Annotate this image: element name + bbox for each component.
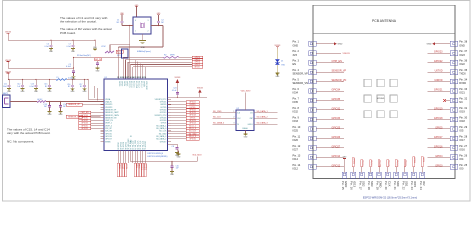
svg-text:Pin. 14: Pin. 14 [293, 164, 301, 167]
wire Pin. 20 [387, 167, 389, 173]
wire bottom pin [117, 151, 119, 164]
svg-text:IO19: IO19 [459, 111, 465, 114]
svg-text:SD_CLK: SD_CLK [159, 131, 167, 133]
capacitor C5 EN cluster [73, 58, 75, 72]
svg-text:GPIO4: GPIO4 [125, 142, 127, 147]
wire bottom pin [122, 151, 124, 164]
port GPIO22 [186, 109, 199, 112]
pin left VDDA [101, 98, 105, 100]
port SD_D_1 [186, 124, 199, 127]
pin left LNA_IN [101, 101, 105, 103]
port GPIO5 [192, 63, 203, 66]
pin right GPIO17 [168, 141, 172, 143]
svg-text:Pin. 25: Pin. 25 [459, 164, 467, 167]
svg-text:CHIP_PU: CHIP_PU [105, 120, 113, 122]
net label SD_D_2 rotated [361, 160, 363, 167]
svg-text:IO25: IO25 [293, 130, 299, 133]
svg-text:MTDO: MTDO [118, 142, 120, 148]
wire XIN [122, 25, 133, 27]
svg-text:Pin. 10: Pin. 10 [293, 126, 301, 129]
svg-text:SENSOR_VP: SENSOR_VP [105, 109, 117, 111]
wire rail3 [8, 79, 56, 81]
wire Pin. 5 [316, 81, 344, 83]
svg-text:ESP32-D0WD(NRND): ESP32-D0WD(NRND) [148, 156, 168, 158]
svg-text:SD1: SD1 [405, 181, 409, 187]
svg-text:22: 22 [137, 77, 139, 79]
wire to port U0TXD [168, 106, 187, 108]
wire Pin. 9 [316, 118, 344, 120]
svg-text:GPIO17: GPIO17 [160, 141, 167, 143]
svg-text:IO35: IO35 [293, 101, 299, 104]
svg-text:NC: No component.: NC: No component. [7, 140, 34, 144]
svg-text:GPIO0: GPIO0 [118, 81, 120, 86]
wire EN to chip b [96, 88, 98, 101]
svg-text:3: 3 [148, 20, 149, 22]
wire Pin. 4 [316, 71, 344, 73]
pin left VDD3P3 [101, 104, 105, 106]
svg-text:U0TXD: U0TXD [160, 107, 167, 109]
port SENSOR_VP [66, 103, 82, 106]
port GPIO25 [79, 124, 91, 127]
gnd flag symbol [343, 158, 346, 160]
port SD_CMD flash left [213, 112, 237, 114]
svg-text:SD_CMD: SD_CMD [159, 133, 167, 135]
wire EN to chip a [94, 86, 96, 98]
svg-text:RXD0: RXD0 [459, 82, 466, 85]
pin right VDD3P3_CPU [168, 114, 172, 116]
svg-text:VDD_SDIO: VDD_SDIO [128, 138, 130, 147]
svg-text:GPIO18: GPIO18 [160, 120, 167, 122]
svg-text:GPIO17: GPIO17 [142, 81, 144, 87]
pin right VDD3P3_RTC [168, 98, 172, 100]
port GPIO34 [79, 114, 91, 117]
svg-text:GND: GND [141, 47, 146, 49]
svg-text:SD_D_1: SD_D_1 [128, 81, 130, 87]
capacitor C8 right mid [168, 143, 178, 145]
wire top pin stub [134, 60, 136, 79]
module pin box right Pin. 27 IO16 [450, 145, 458, 150]
svg-text:Pin. 31: Pin. 31 [459, 107, 467, 110]
net label GPIO13 rotated [352, 158, 354, 167]
module pin box bottom Pin. 18 SD3 [368, 172, 373, 178]
svg-text:Pin. 34: Pin. 34 [459, 79, 467, 82]
svg-text:GND: GND [293, 44, 299, 47]
wire bottom pin [127, 151, 129, 164]
svg-text:GPIO0: GPIO0 [435, 164, 443, 167]
module pin box right Pin. 29 IO5 [450, 127, 458, 132]
module pin box right Pin. 33 IO21 [450, 89, 458, 94]
port U0TXD [186, 106, 199, 109]
svg-text:GPIO14: GPIO14 [332, 155, 341, 158]
svg-text:30: 30 [120, 77, 122, 79]
svg-text:U0TXD: U0TXD [435, 70, 443, 73]
wire bottom pin [130, 151, 132, 162]
net label SD_D_0 rotated [395, 160, 397, 167]
port GPIO16 rotated [139, 163, 141, 177]
svg-text:D1: D1 [281, 61, 283, 63]
module pin box right Pin. 36 IO22 [450, 60, 458, 65]
pin left VDD3P3 [101, 106, 105, 108]
svg-text:Pin. 11: Pin. 11 [293, 135, 301, 138]
wire Pin. 7 [316, 100, 344, 102]
module pin box left Pin. 10 IO25 [309, 127, 317, 132]
wire Pin. 30 [428, 118, 451, 120]
pin right GPIO21 [168, 101, 172, 103]
pin left SENSOR_CAPN [101, 114, 105, 116]
svg-text:vary with the actual PCB board: vary with the actual PCB board. [7, 131, 50, 135]
wire to port GPIO23 [168, 119, 187, 121]
svg-text:VDD_SDIO: VDD_SDIO [192, 155, 202, 157]
svg-text:CMD: CMD [379, 181, 383, 187]
svg-text:(NC): (NC) [117, 55, 121, 57]
svg-text:Pin. 3: Pin. 3 [293, 60, 300, 63]
IC U2 flash body [236, 110, 254, 131]
svg-text:SENSOR_VP: SENSOR_VP [332, 70, 347, 73]
svg-text:IO17: IO17 [459, 139, 465, 142]
wire Pin. 18 [369, 167, 371, 173]
svg-text:GPIO2: GPIO2 [120, 81, 122, 86]
svg-text:MTMS: MTMS [105, 141, 111, 143]
svg-text:CLK: CLK [387, 181, 391, 187]
wire bus GPIO0 [122, 57, 124, 79]
port SD_D3 flash right [254, 123, 278, 125]
resistor R2 [163, 56, 179, 58]
svg-text:GPIO35: GPIO35 [332, 98, 341, 101]
svg-text:1uF: 1uF [17, 86, 20, 88]
antenna stub ANT1 [3, 95, 11, 108]
capacitor C2 [157, 20, 160, 22]
svg-text:IO13: IO13 [353, 181, 357, 188]
gnd arrow symbol [334, 42, 337, 45]
svg-text:Pin. 6: Pin. 6 [293, 88, 300, 91]
wire bottom pin [139, 151, 141, 164]
svg-text:IO22: IO22 [459, 63, 465, 66]
svg-text:the selection of the crystal.: the selection of the crystal. [60, 20, 97, 24]
svg-text:C12: C12 [17, 84, 20, 86]
capacitor C14 shunt [60, 101, 61, 102]
pin right GPIO18 [168, 119, 172, 121]
wire to port SD_CMD [168, 133, 187, 135]
wire Pin. 14 [316, 166, 344, 168]
wire Pin. 23 [413, 167, 415, 173]
pin left SENSOR_VP [101, 109, 105, 111]
module pin box left Pin. 3 EN [309, 60, 317, 65]
svg-text:VDET_1: VDET_1 [105, 123, 112, 125]
wire to port SD_D_3 [168, 135, 187, 137]
svg-text:SENSOR_VP: SENSOR_VP [68, 104, 80, 106]
svg-text:Pin. 9: Pin. 9 [293, 116, 300, 119]
module pin box bottom Pin. 20 CLK [385, 172, 390, 178]
svg-text:C10: C10 [176, 165, 179, 167]
svg-text:C7: C7 [69, 44, 71, 46]
svg-text:SENSOR_VN: SENSOR_VN [332, 79, 347, 82]
svg-text:GPIO16: GPIO16 [434, 145, 443, 148]
svg-text:C14: C14 [63, 104, 66, 106]
module pin box left Pin. 11 IO26 [309, 136, 317, 141]
wire after L5 [67, 79, 88, 81]
module pin box left Pin. 14 IO12 [309, 164, 317, 169]
wire XOUT [151, 25, 163, 27]
svg-text:GPIO26: GPIO26 [332, 136, 341, 139]
antenna zone divider [313, 33, 455, 35]
module pin box right Pin. 26 IO4 [450, 155, 458, 160]
pin right GPIO22 [168, 109, 172, 111]
pin right SD_DATA_0 [168, 127, 172, 129]
svg-text:GPIO21: GPIO21 [160, 102, 167, 104]
port SD_D_3 [186, 135, 199, 138]
svg-text:U0RXD: U0RXD [434, 79, 442, 82]
svg-text:C11: C11 [4, 84, 7, 86]
module pin box right Pin. 30 IO18 [450, 117, 458, 122]
svg-text:GPIO22: GPIO22 [160, 109, 167, 111]
wire Pin. 2 [316, 52, 341, 54]
module pin box bottom Pin. 15 GND [342, 172, 347, 178]
wire Pin. 29 [428, 128, 451, 130]
svg-text:L4 NC: L4 NC [37, 99, 43, 101]
svg-text:C17: C17 [79, 84, 82, 86]
port GPIO2 rotated [120, 163, 122, 177]
pin right SD_DATA_1 [168, 125, 172, 127]
svg-text:GPIO12: GPIO12 [332, 164, 341, 167]
svg-text:IO32: IO32 [293, 111, 299, 114]
wire to port GPIO5 [168, 117, 187, 119]
pin right SD_DATA_2 [168, 138, 172, 140]
svg-text:GND: GND [338, 44, 343, 46]
port SD_CLK [186, 130, 199, 133]
svg-text:VDD3P3: VDD3P3 [105, 107, 112, 109]
capacitor C4 [96, 62, 99, 64]
svg-text:Pin. 7: Pin. 7 [293, 98, 300, 101]
svg-text:0.1uF: 0.1uF [44, 46, 48, 48]
pin right GPIO5 [168, 122, 172, 124]
svg-text:VDD_SDIO: VDD_SDIO [241, 91, 251, 93]
svg-text:IO16: IO16 [459, 148, 465, 151]
wire top pin stub [144, 67, 146, 79]
svg-text:GPIO4: GPIO4 [435, 155, 443, 158]
svg-text:IO34: IO34 [293, 92, 299, 95]
crystal X1 body [133, 17, 151, 34]
svg-text:L2 NC: L2 NC [101, 46, 107, 48]
svg-text:MTDO: MTDO [195, 67, 201, 69]
svg-text:GPIO17: GPIO17 [145, 141, 147, 147]
svg-text:GPIO32: GPIO32 [332, 107, 341, 110]
capacitor C7 cluster [72, 40, 73, 41]
svg-text:Pin. 35: Pin. 35 [459, 69, 467, 72]
port SD_D1 flash right [254, 112, 278, 114]
wire Pin. 24 [421, 167, 423, 173]
svg-text:C8: C8 [171, 146, 173, 148]
wire Pin. 3 [316, 62, 344, 64]
wire filtered vdd into chip [87, 80, 89, 100]
wire bus GPIO5 [129, 65, 131, 80]
wire top pin stub [139, 63, 141, 79]
pin left 32K_XP [101, 127, 105, 129]
module pin box left Pin. 4 SENSOR_VP [309, 70, 317, 75]
port GPIO26 [79, 127, 91, 130]
module pin box right Pin. 28 IO17 [450, 136, 458, 141]
wire Pin. 33 [428, 90, 451, 92]
svg-text:499R: 499R [170, 54, 175, 56]
wire Pin. 37 [428, 52, 451, 54]
wire Pin. 15 [344, 159, 346, 173]
svg-text:31: 31 [117, 77, 119, 79]
svg-text:1: 1 [135, 31, 136, 33]
wire top pin stub [137, 62, 139, 80]
port CHIP_PU [95, 58, 102, 61]
svg-text:Pin. 29: Pin. 29 [459, 126, 467, 129]
wire to port GPIO16 [168, 138, 187, 140]
svg-text:TXD0: TXD0 [459, 73, 466, 76]
capacitor C17 cluster right [84, 79, 85, 80]
component box X2 [122, 49, 129, 58]
port MTCK rotated [137, 163, 139, 177]
svg-text:SD3: SD3 [370, 181, 374, 187]
svg-text:26: 26 [130, 77, 132, 79]
svg-text:VDD33: VDD33 [175, 77, 181, 79]
wire Pin. 12 [316, 147, 344, 149]
port GPIO33 [79, 122, 91, 125]
wire bottom pin [137, 151, 139, 164]
port GPIO0 rotated [122, 163, 124, 177]
capacitor C12 cluster [22, 79, 23, 80]
capacitor C11 cluster [8, 79, 9, 80]
svg-text:0.1uF: 0.1uF [29, 86, 33, 88]
svg-text:C6: C6 [47, 44, 49, 46]
module pin box right Pin. 25 IO0 [450, 164, 458, 169]
module pin box right Pin. 37 IO23 [450, 51, 458, 56]
pin left GPIO27 [101, 138, 105, 140]
module pin box left Pin. 2 3V3 [309, 51, 317, 56]
svg-text:C16: C16 [67, 84, 70, 86]
svg-text:SENSOR_VP: SENSOR_VP [293, 73, 309, 76]
port MTDO rotated [117, 163, 119, 177]
module pin box left Pin. 13 IO14 [309, 155, 317, 160]
svg-text:Pin. 26: Pin. 26 [459, 154, 467, 157]
svg-text:C24: C24 [173, 88, 176, 90]
pin right U0TXD [168, 106, 172, 108]
svg-text:GPIO5: GPIO5 [161, 123, 167, 125]
wire Pin. 19 [378, 167, 380, 173]
pin right SD_DATA_3 [168, 135, 172, 137]
capacitor C15 cluster [49, 79, 50, 80]
svg-text:4: 4 [135, 20, 136, 22]
wire bottom pin [125, 151, 127, 164]
module pin box left Pin. 1 GND [309, 41, 317, 46]
pin right SD_CLK [168, 130, 172, 132]
svg-text:PCB ANTENNA: PCB ANTENNA [372, 19, 397, 23]
wire to port GPIO13 [168, 122, 187, 124]
svg-text:10uF: 10uF [3, 86, 7, 88]
svg-text:GPIO26: GPIO26 [105, 136, 112, 138]
module pin box bottom Pin. 23 IO15 [411, 172, 416, 178]
wire to port SD_D_0 [168, 127, 187, 129]
svg-text:SD_CLK: SD_CLK [213, 117, 221, 119]
svg-text:VDD_SDIO: VDD_SDIO [145, 81, 147, 90]
wire bottom pin [120, 151, 122, 164]
pin left VDET_2 [101, 125, 105, 127]
wire Pin. 26 [428, 156, 451, 158]
module pin box right Pin. 31 IO19 [450, 108, 458, 113]
svg-text:GPIO17: GPIO17 [434, 136, 443, 139]
pin left VDET_1 [101, 122, 105, 124]
no-connect X mark [443, 99, 446, 102]
svg-text:GPIO5: GPIO5 [435, 126, 443, 129]
svg-text:C2: C2 [161, 20, 163, 22]
wire bus MTDO [132, 67, 134, 79]
svg-text:IO26: IO26 [293, 139, 299, 142]
wire to port GPIO18 [168, 114, 187, 116]
svg-text:GPIO23: GPIO23 [160, 117, 167, 119]
wire rail1 [8, 39, 95, 41]
svg-text:Pin. 1: Pin. 1 [293, 41, 300, 44]
wire to port GPIO22 [168, 109, 187, 111]
port SD_D2 flash right [254, 117, 278, 119]
svg-text:Pin. 8: Pin. 8 [293, 107, 300, 110]
wire Pin. 8 [316, 109, 344, 111]
svg-text:R2: R2 [164, 54, 166, 56]
port GPIO13 [186, 122, 199, 125]
wire Pin. 17 [361, 167, 363, 173]
wire Pin. 25 [428, 166, 451, 168]
wire Pin. 16 [352, 167, 354, 173]
svg-text:Pin. 28: Pin. 28 [459, 135, 467, 138]
wire crystal gnd bottom [142, 34, 144, 41]
svg-text:NC: NC [459, 101, 463, 104]
wire Pin. 27 [428, 147, 451, 149]
port GPIO15 rotated [142, 163, 144, 177]
svg-text:VDD3P3_RTC: VDD3P3_RTC [155, 99, 167, 101]
wire Pin. 22 [404, 167, 406, 173]
gnd mid bottom [178, 151, 180, 155]
svg-text:GPIO18: GPIO18 [434, 117, 443, 120]
module pin box left Pin. 9 IO33 [309, 117, 317, 122]
wire VDD3P3 row [168, 96, 208, 98]
pin right GPIO19 [168, 111, 172, 113]
module pin box bottom Pin. 21 SD0 [394, 172, 399, 178]
svg-text:28: 28 [125, 77, 127, 79]
wire rail2 [8, 67, 74, 69]
module pin box bottom Pin. 19 CMD [377, 172, 382, 178]
wire L4 to LNA [46, 101, 104, 103]
wire Pin. 21 [395, 167, 397, 173]
svg-text:3V3: 3V3 [293, 54, 298, 57]
wire Pin. 6 [316, 90, 344, 92]
svg-text:SD_CLK: SD_CLK [133, 81, 135, 88]
capacitor C16 cluster [72, 79, 73, 80]
svg-text:GPIO26: GPIO26 [81, 128, 88, 130]
port GPIO18 [186, 114, 199, 117]
port SD_CLK flash left [213, 117, 237, 119]
svg-text:GPIO4: GPIO4 [123, 81, 125, 86]
svg-text:PCB board.: PCB board. [60, 31, 76, 35]
wire Pin. 31 [428, 109, 451, 111]
net label GPIO2 rotated [421, 157, 423, 167]
svg-text:GPIO22: GPIO22 [434, 60, 443, 63]
pin left 32K_XN [101, 130, 105, 132]
svg-text:C15: C15 [43, 104, 46, 106]
wire to port U0RXD [168, 104, 187, 106]
svg-text:1uF: 1uF [176, 168, 179, 170]
svg-text:32K_XP: 32K_XP [105, 128, 112, 130]
pin left GPIO25 [101, 133, 105, 135]
svg-text:Pin. 2: Pin. 2 [293, 50, 300, 53]
svg-text:GPIO19: GPIO19 [434, 107, 443, 110]
wire top pin stub [142, 65, 144, 79]
svg-text:U0RXD: U0RXD [160, 104, 167, 106]
svg-text:GPIO19: GPIO19 [160, 112, 167, 114]
svg-text:SD_CMD: SD_CMD [213, 111, 222, 113]
pin left CHIP_PU [101, 119, 105, 121]
